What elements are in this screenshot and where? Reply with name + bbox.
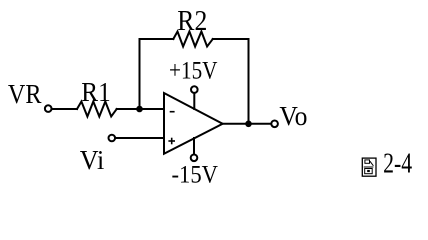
op-amp U1	[164, 93, 223, 154]
svg-text:-15V: -15V	[172, 161, 219, 188]
svg-text:2-4: 2-4	[383, 149, 412, 180]
wire	[223, 123, 272, 125]
terminal +15V	[191, 86, 198, 93]
wire	[140, 38, 174, 40]
terminal Vi	[109, 135, 116, 142]
wire	[116, 137, 164, 139]
op-amp minus input marker	[170, 111, 175, 113]
svg-text:VR: VR	[8, 79, 42, 109]
terminal Vo	[271, 121, 278, 128]
caption glyph 圖	[362, 158, 376, 176]
-15V stub wire	[193, 138, 195, 155]
+15V stub wire	[193, 93, 195, 109]
wire	[139, 39, 141, 109]
wire	[213, 38, 249, 40]
terminal VR	[45, 105, 52, 112]
resistor R2	[173, 32, 213, 47]
wire	[248, 39, 250, 124]
junction node A	[136, 106, 143, 113]
svg-text:R2: R2	[177, 5, 207, 37]
junction node output	[245, 121, 252, 128]
wire	[53, 108, 78, 110]
resistor R1	[77, 102, 117, 117]
svg-text:+15V: +15V	[169, 57, 218, 84]
op-amp plus input marker	[168, 138, 175, 145]
wire	[117, 108, 164, 110]
svg-text:Vo: Vo	[279, 101, 307, 131]
terminal -15V	[191, 155, 198, 162]
svg-text:Vi: Vi	[80, 145, 105, 175]
svg-text:R1: R1	[81, 77, 110, 107]
